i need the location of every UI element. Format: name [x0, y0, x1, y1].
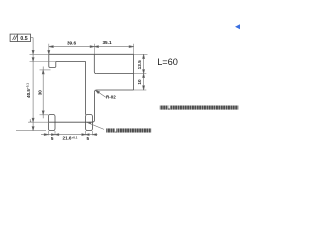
feature control frame [10, 34, 30, 41]
ext below right tab right [91, 131, 93, 135]
dimension bottom line [41, 134, 97, 136]
ext vertical above left corner [48, 44, 50, 55]
dimension right line [143, 54, 145, 90]
svg-text:30: 30 [37, 90, 42, 96]
part left edge upper [49, 54, 50, 67]
ext top edge right [134, 53, 148, 55]
top mid vertical edge with fillet [94, 54, 96, 73]
part top edge [49, 53, 134, 55]
ext arm step right [134, 73, 147, 75]
ext below right tab left [85, 131, 87, 135]
step ledge small [50, 62, 56, 68]
blue cursor wedge [235, 24, 240, 29]
svg-text:35.1: 35.1 [102, 40, 112, 45]
part right edge [133, 54, 135, 90]
svg-text:13.5: 13.5 [137, 60, 142, 70]
extension lines [16, 44, 148, 136]
svg-text:R-02: R-02 [106, 95, 116, 100]
dimension top line [48, 46, 134, 55]
note A CJK text [160, 105, 239, 110]
svg-text:5: 5 [51, 136, 54, 141]
ext below left tab left [47, 131, 49, 135]
ext bottom edge left [28, 121, 49, 123]
leader note bottom [87, 122, 104, 129]
arm bottom edge with fillet [95, 90, 134, 92]
dimension left line 30 [42, 67, 44, 119]
svg-text:10: 10 [137, 79, 142, 85]
ext tab bottom far left [16, 130, 46, 132]
arm step edge [96, 73, 133, 75]
ext y70 left [40, 69, 51, 71]
note B CJK text [106, 128, 151, 133]
svg-text:0.5: 0.5 [20, 36, 27, 42]
mid vertical edge [85, 62, 87, 115]
fcf leader [31, 37, 34, 39]
right tab rounded [86, 115, 93, 131]
ext tab top left [40, 114, 49, 116]
svg-text:39.6: 39.6 [67, 40, 77, 45]
ext arm bottom right [134, 89, 147, 91]
ext top edge left [30, 53, 49, 55]
ext vertical above right corner [133, 44, 135, 55]
ext vertical above mid [93, 44, 95, 55]
svg-text:5: 5 [87, 136, 90, 141]
body right edge with bottom fillet [92, 92, 94, 122]
left tab rounded [48, 115, 55, 131]
dimension left line 40.5 [32, 38, 34, 131]
ext ledge left [30, 61, 56, 63]
part bottom edge [49, 121, 92, 123]
notch ledge [56, 61, 86, 63]
svg-text:L=60: L=60 [157, 57, 178, 67]
leader R-02 [96, 90, 106, 97]
ext below left tab right [54, 131, 56, 135]
